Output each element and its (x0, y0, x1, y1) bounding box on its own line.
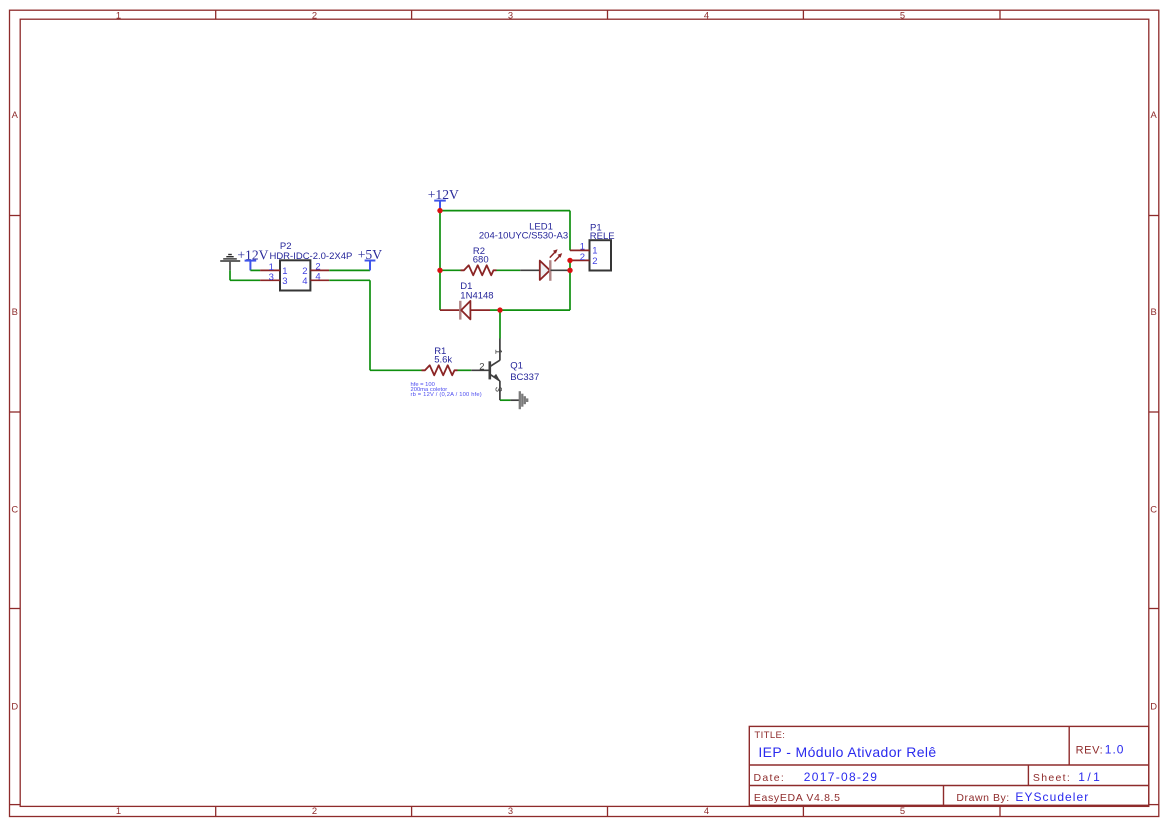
svg-text:1: 1 (492, 349, 503, 354)
svg-text:HDR-IDC-2.0-2X4P: HDR-IDC-2.0-2X4P (269, 251, 352, 262)
svg-text:IEP - Módulo Ativador Relê: IEP - Módulo Ativador Relê (758, 744, 936, 760)
resistor R2 (461, 265, 497, 275)
svg-text:5.6k: 5.6k (434, 355, 452, 366)
wire Q1 emitter to ground (500, 399, 510, 401)
led LED1 cathode bar (549, 260, 551, 281)
connector P1 rect (590, 240, 612, 270)
svg-text:1: 1 (116, 10, 121, 21)
svg-text:2: 2 (312, 10, 317, 21)
svg-text:4: 4 (704, 805, 709, 816)
P2 pin 1 stub (260, 269, 280, 271)
svg-text:TITLE:: TITLE: (754, 730, 785, 741)
wire ground stem green (229, 270, 231, 280)
svg-text:3: 3 (282, 276, 287, 287)
wire D1 row (500, 309, 570, 311)
wire P2 pin4 horizontal (329, 279, 370, 281)
wire to R2 (440, 269, 461, 271)
transistor Q1 emitter arrow (493, 374, 500, 382)
wire P2 pin2 to +5V (329, 269, 370, 271)
ground lead gray (510, 399, 519, 401)
diode D1 lead right (470, 309, 490, 311)
svg-text:3: 3 (493, 387, 504, 392)
wire vertical to R1 row (369, 280, 371, 370)
svg-text:5: 5 (900, 10, 905, 21)
column ticks top ruler (215, 10, 217, 19)
row ticks left ruler (10, 215, 21, 217)
svg-text:2: 2 (592, 256, 597, 267)
svg-text:D: D (11, 701, 18, 712)
diode D1 cathode bar (459, 301, 461, 320)
svg-text:1.0: 1.0 (1105, 743, 1125, 757)
junction dot node Q1 collector (497, 307, 502, 312)
svg-text:B: B (1150, 306, 1156, 317)
svg-text:C: C (11, 503, 18, 514)
svg-text:Drawn By:: Drawn By: (956, 792, 1009, 804)
diode D1 triangle (461, 301, 470, 320)
svg-text:2017-08-29: 2017-08-29 (804, 770, 878, 784)
connector P2 rect (280, 260, 310, 290)
svg-text:Q1: Q1 (510, 360, 523, 371)
svg-text:1/1: 1/1 (1078, 770, 1102, 784)
wire D1 to node (490, 309, 500, 311)
svg-text:680: 680 (473, 254, 489, 265)
transistor Q1 base bar (488, 361, 491, 379)
svg-text:Sheet:: Sheet: (1033, 772, 1071, 784)
svg-text:EasyEDA V4.8.5: EasyEDA V4.8.5 (754, 792, 841, 804)
transistor Q1 collector lead (499, 339, 501, 361)
junction dot at +12V top (437, 208, 442, 213)
svg-text:4: 4 (302, 276, 307, 287)
P2 pin 2 stub (310, 269, 329, 271)
svg-text:D: D (1150, 701, 1157, 712)
junction dot at LED cathode (567, 268, 572, 273)
ground symbol at Q1 emitter (519, 391, 521, 409)
P2 pin 4 stub (310, 279, 329, 281)
svg-text:Date:: Date: (754, 772, 786, 784)
wire R1 to Q1 base (458, 369, 472, 371)
led LED1 emission arrow 1 (550, 252, 556, 258)
svg-text:1N4148: 1N4148 (460, 291, 493, 302)
svg-text:2: 2 (312, 805, 317, 816)
P1 pin 1 stub (570, 249, 590, 251)
wire R2 to LED (497, 269, 521, 271)
svg-text:3: 3 (269, 272, 274, 283)
svg-text:1: 1 (592, 245, 597, 256)
transistor Q1 emitter lead (499, 381, 501, 400)
svg-text:A: A (12, 109, 19, 120)
column ticks bottom ruler (215, 806, 217, 816)
wire P1 pin2 vertical (569, 260, 571, 310)
wire node to Q1 collector (499, 310, 501, 338)
svg-text:C: C (1150, 503, 1157, 514)
P2 pin 3 stub (260, 279, 280, 281)
transistor Q1 base lead (471, 369, 489, 371)
led LED1 triangle (540, 261, 550, 280)
junction dot at R2 left (437, 268, 442, 273)
led LED1 emission arrow 2 (555, 255, 561, 261)
wire ground to P2 pin3 (230, 279, 260, 281)
ground symbol earth left (228, 254, 232, 256)
svg-text:3: 3 (508, 805, 513, 816)
svg-text:5: 5 (900, 805, 905, 816)
row ticks right ruler (1149, 215, 1159, 217)
svg-text:RELE: RELE (590, 231, 615, 242)
led LED1 lead right (551, 269, 571, 271)
svg-text:2: 2 (580, 252, 585, 263)
svg-text:1: 1 (116, 805, 121, 816)
junction dot at P1 pin2 (567, 258, 572, 263)
svg-text:rb = 12V / (0,2A / 100 hfe): rb = 12V / (0,2A / 100 hfe) (411, 392, 482, 398)
transistor Q1 collector diagonal (490, 360, 500, 366)
wire right vertical to P1 pin1 (569, 211, 571, 251)
svg-text:B: B (12, 306, 18, 317)
svg-text:2: 2 (479, 362, 484, 373)
title block frame (749, 726, 1149, 805)
transistor Q1 emitter diagonal (490, 374, 500, 381)
wire +12V top horizontal (440, 210, 570, 212)
svg-text:A: A (1150, 109, 1157, 120)
svg-text:204-10UYC/S530-A3: 204-10UYC/S530-A3 (479, 231, 568, 242)
svg-text:P2: P2 (280, 241, 292, 252)
diode D1 lead left (440, 309, 460, 311)
led LED1 lead left (520, 269, 540, 271)
wire to R1 (370, 369, 422, 371)
P1 pin 2 stub (570, 259, 590, 261)
svg-text:BC337: BC337 (510, 372, 539, 383)
wire left vertical +12V (439, 211, 441, 311)
resistor R1 (422, 365, 458, 375)
svg-text:EYScudeler: EYScudeler (1015, 790, 1089, 804)
svg-text:4: 4 (704, 10, 709, 21)
svg-text:3: 3 (508, 10, 513, 21)
wire +12V flag to P2 pin1 (250, 269, 260, 271)
svg-text:4: 4 (315, 272, 320, 283)
svg-text:REV:: REV: (1076, 745, 1104, 757)
